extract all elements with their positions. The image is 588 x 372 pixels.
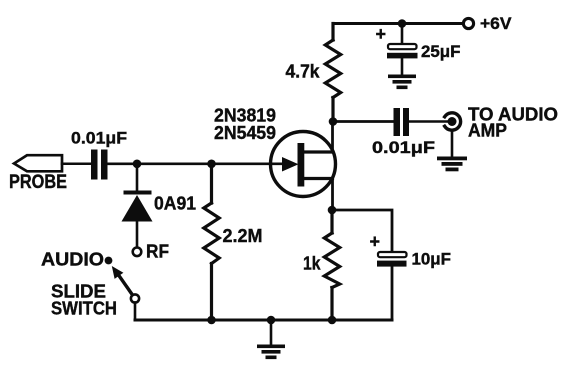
- node top rail junction: [398, 19, 407, 28]
- wire top rail: [333, 22, 463, 25]
- node 2.2M bottom: [207, 316, 216, 325]
- resistor R3 1k: [324, 210, 339, 320]
- wire switch to bottom rail: [134, 303, 137, 321]
- ground below 25uF: [388, 75, 416, 90]
- node 1k bottom: [328, 316, 337, 325]
- resistor R2 4.7k: [325, 24, 340, 122]
- svg-text:4.7k: 4.7k: [286, 62, 321, 82]
- svg-text:0A91: 0A91: [154, 194, 196, 214]
- svg-text:+: +: [370, 232, 381, 252]
- terminal output jack: [445, 113, 461, 130]
- capacitor C4 10uF: [377, 252, 407, 320]
- capacitor C3 0.01uF output plates: [394, 108, 410, 136]
- svg-text:SWITCH: SWITCH: [51, 299, 117, 319]
- node source junction: [328, 206, 337, 215]
- svg-text:2N5459: 2N5459: [214, 123, 276, 143]
- svg-text:0.01μF: 0.01μF: [71, 129, 127, 148]
- node diode junction: [133, 160, 142, 169]
- terminal +6V open circle: [463, 18, 473, 28]
- wire ground stub: [270, 320, 273, 345]
- probe tip symbol: [14, 155, 62, 171]
- wire drain to C3: [333, 120, 394, 123]
- ground main: [257, 345, 285, 360]
- wire C1 to gate: [108, 163, 285, 166]
- svg-text:PROBE: PROBE: [9, 172, 67, 193]
- svg-text:+: +: [376, 24, 387, 44]
- wire probe to C1: [62, 163, 91, 166]
- wire to C2: [401, 24, 404, 45]
- wire diode stub: [136, 164, 139, 191]
- ground below jack: [437, 157, 467, 172]
- svg-text:2.2M: 2.2M: [223, 226, 263, 246]
- switch pole open circle: [131, 294, 139, 302]
- node drain junction: [329, 117, 338, 126]
- svg-text:AMP: AMP: [468, 121, 507, 141]
- switch lever with arrowhead: [112, 266, 133, 295]
- resistor R1 2.2M: [204, 164, 219, 320]
- wire jack to ground: [451, 132, 454, 157]
- svg-text:RF: RF: [146, 242, 169, 262]
- capacitor C2 25uF: [387, 44, 418, 75]
- node ground junction: [267, 316, 276, 325]
- svg-text:0.01μF: 0.01μF: [372, 138, 435, 157]
- transistor Q1 JFET: [271, 122, 336, 211]
- node 2.2M junction: [207, 160, 216, 169]
- svg-text:10μF: 10μF: [412, 250, 452, 269]
- svg-text:+6V: +6V: [480, 14, 512, 33]
- wire source to C4 top: [332, 210, 392, 252]
- wire bottom rail: [135, 319, 392, 322]
- terminal RF open circle: [133, 248, 142, 257]
- diode D1 0A91: [122, 191, 153, 248]
- svg-text:25μF: 25μF: [421, 42, 461, 61]
- wire C3 to jack: [409, 120, 449, 123]
- capacitor C1 0.01uF input plates: [91, 150, 108, 180]
- svg-text:1k: 1k: [303, 254, 321, 274]
- svg-text:AUDIO: AUDIO: [41, 250, 104, 270]
- terminal AUDIO dot: [105, 257, 113, 265]
